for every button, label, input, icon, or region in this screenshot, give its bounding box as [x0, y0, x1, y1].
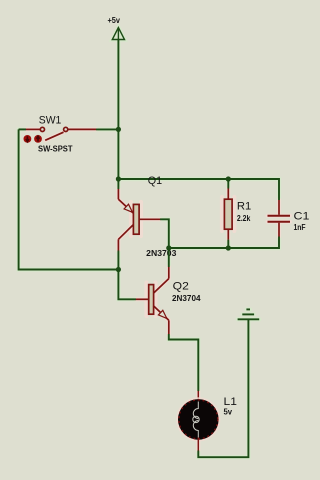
wire: junction down to Q2 base	[118, 270, 136, 300]
wire: bottom rail	[169, 237, 279, 249]
wire: Q2 emitter to lamp	[169, 334, 199, 391]
junction dot: Q1 emitter / top rail	[116, 176, 121, 181]
power +5v symbol	[112, 28, 124, 41]
ground	[238, 309, 260, 319]
capacitor C1	[268, 200, 291, 237]
wire: Q1 base to bottom rail	[160, 219, 169, 248]
wire: top rail to R1/C1	[118, 179, 279, 200]
junction dot: switch/power rail	[116, 127, 121, 132]
wire: power rail down to switch junction	[117, 40, 119, 129]
wire: R1 bottom stub	[227, 240, 229, 248]
svg-text:2N3703: 2N3703	[146, 249, 177, 258]
svg-text:1nF: 1nF	[294, 223, 306, 232]
lamp L1	[177, 391, 219, 451]
wire: lamp bottom to ground rail	[198, 319, 248, 457]
junction dot: left rail / Q1 collector / Q2 base	[116, 267, 121, 272]
transistor Q1	[118, 189, 160, 251]
wire: SW1 to center rail	[96, 128, 118, 130]
resistor R1	[224, 189, 232, 240]
svg-text:Q2: Q2	[173, 280, 189, 292]
wire: Q2 collector to bottom rail	[168, 248, 170, 267]
junction dot: R1 top	[226, 176, 231, 181]
switch SW1	[26, 127, 96, 140]
svg-text:2N3704: 2N3704	[172, 294, 201, 303]
wire: switch junction down to Q1 emitter junction	[117, 129, 119, 179]
svg-text:L1: L1	[224, 396, 237, 408]
SW1 actuator buttons	[24, 135, 42, 143]
svg-text:Q1: Q1	[148, 175, 162, 187]
svg-text:R1: R1	[237, 201, 251, 213]
wire: left stub to SW1	[19, 128, 26, 130]
svg-text:SW-SPST: SW-SPST	[38, 144, 73, 153]
wire: left rail from SW1 down and across	[19, 129, 119, 269]
wire: green stub at Q1 emitter	[117, 179, 119, 189]
junction dot: Q1 base rail	[166, 245, 171, 250]
svg-text:SW1: SW1	[39, 115, 62, 127]
svg-text:+5v: +5v	[108, 16, 121, 25]
wire: R1 top stub	[227, 179, 229, 189]
svg-text:5v: 5v	[224, 408, 233, 417]
wire: Q1 collector to left-rail junction	[117, 251, 119, 270]
junction dot: R1 bottom	[226, 245, 231, 250]
transistor Q2	[136, 267, 169, 334]
svg-text:C1: C1	[294, 210, 310, 222]
svg-text:2.2k: 2.2k	[237, 214, 251, 223]
